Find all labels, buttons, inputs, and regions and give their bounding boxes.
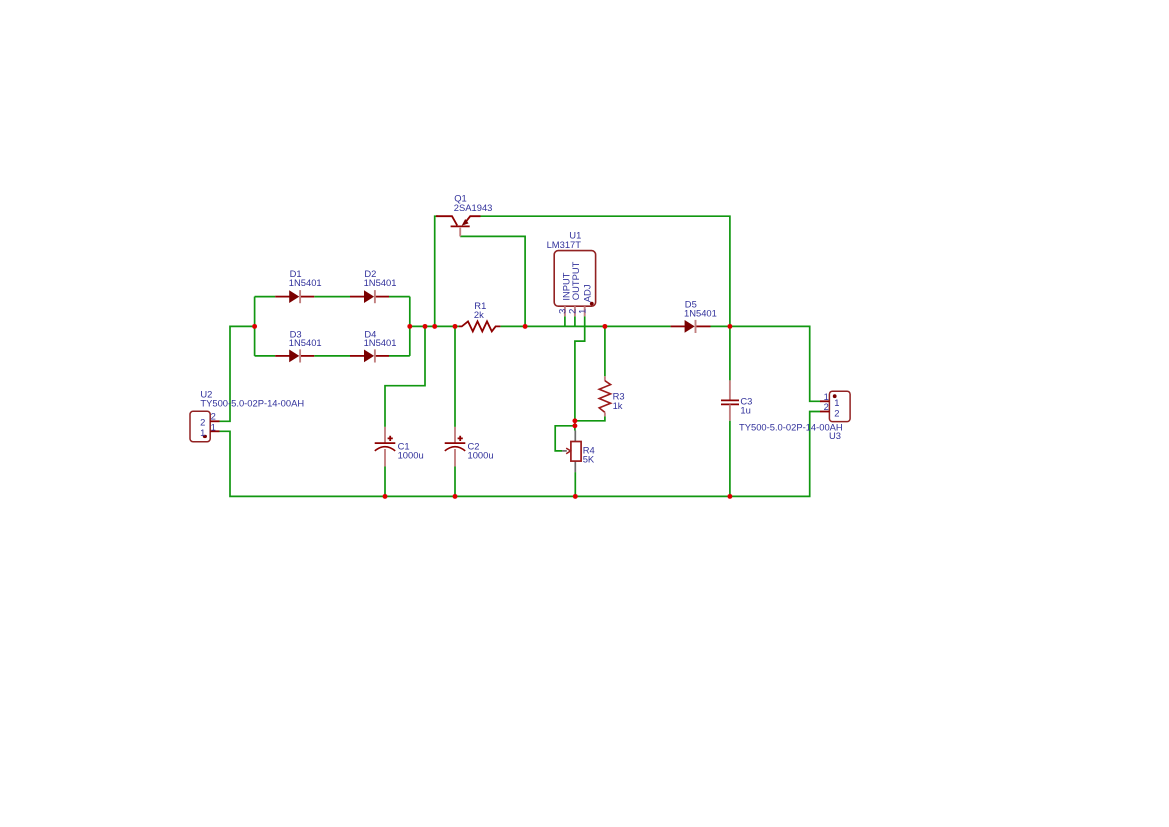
wire: bottom row D4 to right vertical [389, 355, 410, 357]
wire: U1 pin1 ADJ down jog to R3/R4 node [575, 316, 585, 430]
junction at bridge right [407, 324, 412, 329]
wire: top rail from Q1 emitter to right column [481, 216, 730, 326]
svg-text:OUTPUT: OUTPUT [570, 261, 581, 300]
wire: U1 pin3 to bus [564, 316, 566, 326]
wire: U2 pin1 down to ground rail, along bottom, up to U3 pin2 [220, 412, 821, 497]
wire: Q1 left lead down to main bus [435, 216, 439, 326]
wire: bridge right vertical [409, 297, 411, 356]
svg-text:2SA1943: 2SA1943 [454, 202, 493, 213]
wire: top row between D1 and D2 [314, 296, 350, 298]
wire: C2 bottom to ground rail [454, 467, 456, 497]
diode D4 [350, 349, 389, 362]
junction bus/C1 [423, 324, 428, 329]
junction bus/Q1 base [523, 324, 528, 329]
svg-text:1000u: 1000u [468, 450, 494, 461]
svg-text:TY500-5.0-02P-14-00AH: TY500-5.0-02P-14-00AH [200, 398, 304, 409]
wire: C1 bottom to ground rail [384, 467, 386, 497]
regulator U1 LM317T body [554, 251, 595, 317]
svg-text:1N5401: 1N5401 [684, 307, 717, 318]
wire: R4 wiper loop to ADJ node [555, 426, 575, 451]
junction at bridge left [252, 324, 257, 329]
wire: R3 bottom to ADJ node [575, 416, 605, 421]
svg-text:1k: 1k [613, 400, 623, 411]
wire: Q1 base to bus [460, 236, 525, 326]
svg-text:1N5401: 1N5401 [364, 277, 397, 288]
svg-text:1: 1 [576, 309, 587, 314]
svg-text:TY500-5.0-02P-14-00AH: TY500-5.0-02P-14-00AH [739, 421, 843, 432]
wire: main bus R1 to D5 [500, 325, 670, 327]
junction bus/Q1 left [432, 324, 437, 329]
diode D2 [350, 290, 389, 303]
svg-text:2: 2 [824, 401, 829, 412]
diode D3 [275, 349, 314, 362]
resistor R3 [599, 376, 610, 416]
wire: bridge left vertical [254, 297, 256, 356]
junction ground/C3 [727, 494, 732, 499]
transistor Q1 [436, 216, 481, 236]
svg-text:2k: 2k [474, 309, 484, 320]
wire: bottom row between D3 and D4 [314, 355, 350, 357]
wire: bus to C1 (jog) [385, 326, 425, 427]
svg-text:1N5401: 1N5401 [364, 337, 397, 348]
svg-text:1000u: 1000u [398, 450, 424, 461]
wire: output node down to C3 [729, 326, 731, 380]
svg-text:1: 1 [211, 422, 216, 433]
svg-text:2: 2 [200, 416, 205, 427]
junction wiper/ADJ [572, 423, 577, 428]
svg-text:2: 2 [211, 411, 216, 422]
junction bus/C2 [453, 324, 458, 329]
svg-text:LM317T: LM317T [547, 239, 582, 250]
svg-text:1: 1 [200, 427, 205, 438]
junction ground/C1 [383, 494, 388, 499]
connector U3 body [820, 391, 850, 421]
wire: R4 bottom to ground rail [574, 472, 576, 496]
wire: top row D2 to right vertical [389, 296, 410, 298]
svg-text:1N5401: 1N5401 [289, 277, 322, 288]
wire: main bus D5 to C3 node [711, 325, 730, 327]
capacitor C3 [721, 380, 739, 420]
wire: bridge bottom row [255, 355, 276, 357]
wire: bus down to R3 [604, 326, 606, 376]
wire: main bus bridge-right to R1 [410, 325, 459, 327]
wire: bridge top row [255, 296, 276, 298]
junction bus/R3 [602, 324, 607, 329]
wire: bus to C2 [454, 326, 456, 427]
wire: output node right to U3 pin1 [730, 326, 820, 401]
capacitor C1 (polarized) [375, 427, 396, 467]
svg-text:ADJ: ADJ [582, 284, 593, 302]
wire: C3 bottom to ground rail [729, 421, 731, 497]
junction ground/R4 [573, 494, 578, 499]
wire: U2 pin2 up to main bus and to bridge left [220, 326, 255, 421]
connector U2 body [190, 411, 220, 441]
svg-text:1N5401: 1N5401 [289, 337, 322, 348]
resistor R1 [459, 321, 500, 331]
diode D5 [671, 320, 711, 333]
potentiometer R4 [562, 431, 581, 473]
svg-text:U3: U3 [829, 430, 841, 441]
svg-text:1u: 1u [740, 405, 750, 416]
diode D1 [275, 290, 314, 303]
junction ground/C2 [453, 494, 458, 499]
svg-text:5K: 5K [583, 454, 595, 465]
wire: U1 pin2 to bus [574, 316, 576, 326]
capacitor C2 (polarized) [445, 427, 466, 467]
svg-text:2: 2 [834, 407, 839, 418]
junction R3 bottom/ADJ [572, 418, 577, 423]
junction bus/top rail/C3 [727, 324, 732, 329]
